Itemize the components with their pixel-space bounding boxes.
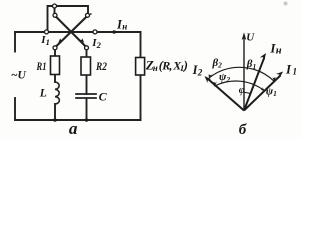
arrowhead arc beta right end <box>272 76 276 82</box>
svg-text:Iн: Iн <box>116 18 127 32</box>
wire switch blade cross 2 <box>57 17 87 46</box>
svg-text:L: L <box>39 87 47 99</box>
speck near switch circle C <box>90 13 92 15</box>
svg-text:I2: I2 <box>192 63 203 77</box>
faint speck top right <box>284 2 288 6</box>
arrowhead I2 <box>205 76 212 83</box>
svg-text:ψ1: ψ1 <box>266 86 277 99</box>
resistor R2 <box>81 57 91 75</box>
svg-text:I1: I1 <box>285 62 297 77</box>
svg-text:R2: R2 <box>95 59 107 73</box>
switch contact circle A <box>53 4 57 8</box>
wire left branch lower <box>14 98 16 120</box>
svg-text:I2: I2 <box>91 37 101 50</box>
wire switch link A-B <box>54 8 56 13</box>
svg-text:а: а <box>69 119 78 138</box>
phasor diagram b <box>207 36 280 111</box>
wire right branch lower <box>140 75 142 120</box>
wire lead to R2 <box>86 50 88 57</box>
wire right branch upper <box>140 32 142 58</box>
arc phi (small) <box>244 92 251 93</box>
arrow I1 on left blade leg <box>58 38 63 43</box>
vector I_H <box>244 58 264 111</box>
wire top main horizontal <box>15 31 141 33</box>
svg-text:ψ2: ψ2 <box>219 71 230 84</box>
wire L to bottom <box>54 104 56 120</box>
svg-text:н(R,XL)Z: н(R,XL)Z <box>145 57 188 73</box>
svg-text:Iн: Iн <box>269 40 281 56</box>
wire lead R1 to L <box>54 75 56 83</box>
vector I1 <box>244 75 281 110</box>
arrow I_H on top wire <box>113 30 121 34</box>
svg-text:β2: β2 <box>212 57 223 70</box>
wire lead R2 to C <box>86 75 88 94</box>
junction dot C-bottom <box>85 118 89 122</box>
svg-text:U: U <box>246 31 255 43</box>
wire lead to R1 <box>54 50 56 56</box>
main wire terminal circle G <box>93 30 97 34</box>
svg-text:β1: β1 <box>246 58 256 71</box>
wire C to bottom <box>86 99 88 120</box>
arrow I2 on right blade leg <box>80 38 85 43</box>
arrowhead axis U <box>242 32 247 40</box>
svg-text:б: б <box>239 122 247 138</box>
wire switch blade cross 1 <box>56 17 85 46</box>
arrowhead I1 <box>276 72 283 78</box>
svg-text:~U: ~U <box>11 70 27 82</box>
svg-text:φ: φ <box>239 85 245 96</box>
svg-text:I1: I1 <box>40 34 50 47</box>
arrowhead arc psi left end <box>214 81 218 87</box>
arc psi (inner) <box>215 81 265 91</box>
capacitor C plates <box>76 94 96 98</box>
arrowhead I_H <box>260 53 266 60</box>
wire left branch upper (source break) <box>14 32 16 52</box>
arc beta (outer) <box>210 67 275 81</box>
load box Z_H <box>136 58 145 76</box>
switch contact circle C <box>86 13 90 17</box>
svg-text:C: C <box>99 89 108 103</box>
main wire terminal circle F <box>45 30 49 34</box>
wire switch top loop <box>48 6 89 32</box>
switch contact circle D (to R2) <box>85 46 89 50</box>
inductor L <box>55 82 59 104</box>
wire bottom horizontal <box>15 119 141 121</box>
switch contact circle E (to R1) <box>53 46 57 50</box>
resistor R1 <box>51 56 60 75</box>
vector I2 <box>207 78 244 110</box>
arrowhead arc psi right end <box>261 87 266 92</box>
arrowhead arc beta left end <box>209 74 213 80</box>
svg-text:R1: R1 <box>36 59 47 73</box>
junction dot L-bottom <box>53 118 57 122</box>
axis U <box>243 36 245 111</box>
switch contact circle B <box>53 13 57 17</box>
